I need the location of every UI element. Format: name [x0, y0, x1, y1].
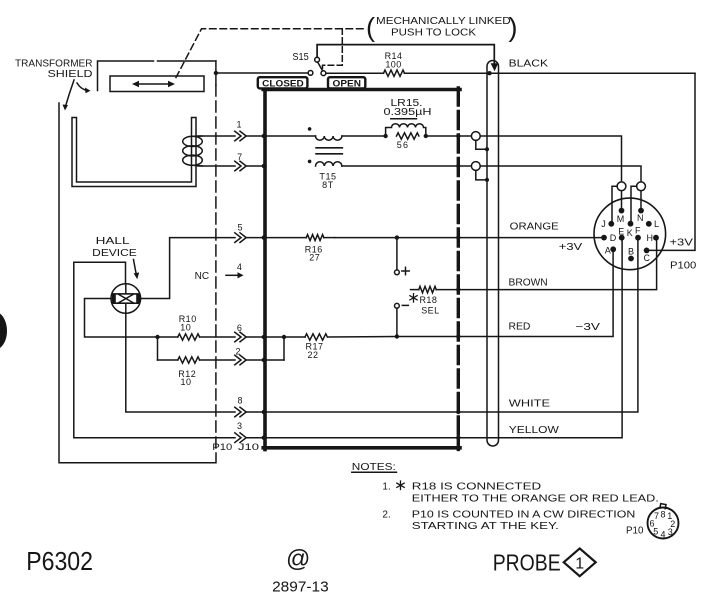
wire winding to LR15	[342, 135, 386, 137]
node yellow at dashed edge	[456, 436, 460, 440]
wire white to P100 pin F	[458, 240, 638, 412]
switch S15	[308, 57, 326, 75]
terminal -	[395, 303, 400, 308]
jack hook wire1 to cable shield	[476, 140, 487, 149]
svg-text:L: L	[654, 219, 659, 229]
svg-text:@: @	[286, 546, 310, 573]
node hook2 on cable shield	[485, 178, 489, 182]
hall device	[111, 284, 141, 314]
probe head shield box left edge	[263, 88, 267, 450]
movable core slider	[110, 76, 204, 92]
svg-text:WHITE: WHITE	[509, 399, 551, 410]
node brown at dashed edge	[456, 287, 460, 291]
svg-text:10: 10	[180, 322, 191, 332]
wire coil to pin 7 chevron	[198, 165, 235, 167]
jack circle on wire2	[471, 162, 480, 171]
T15 secondary winding top	[316, 136, 342, 140]
wire jack to pin M	[621, 191, 623, 208]
label -	[402, 304, 408, 306]
wire pin7 into box	[246, 165, 266, 167]
svg-text:+3V: +3V	[559, 242, 583, 253]
resistor R16	[266, 235, 335, 241]
svg-text:K: K	[627, 228, 633, 238]
wire branch to + terminal	[396, 238, 398, 270]
connector pin 2 chevron	[235, 355, 246, 365]
printing blob artifact on left edge	[0, 314, 7, 349]
P10 key diagram	[648, 504, 679, 540]
pin C	[644, 248, 650, 254]
svg-text:6: 6	[649, 518, 654, 528]
svg-text:−3V: −3V	[575, 322, 600, 333]
pin H	[653, 235, 659, 241]
terminal +	[395, 270, 400, 275]
resistor R14	[384, 70, 405, 76]
jack hook wire2 to cable shield	[476, 170, 487, 180]
wire orange inside box	[335, 237, 459, 239]
connector pin 5 chevron	[235, 233, 246, 243]
wire red to P100 pin A	[458, 252, 613, 337]
wire R14 to black lead	[405, 72, 696, 74]
label CLOSED	[258, 77, 308, 88]
svg-text:SEL: SEL	[421, 305, 439, 315]
jack hook to pin J	[612, 186, 617, 221]
node LR15 right	[424, 134, 428, 138]
wire junction down to pin2 line	[157, 337, 159, 360]
inductor LR15 parallel branch	[386, 124, 426, 136]
connector P100 body	[594, 198, 666, 270]
wire1 to P100 pin M with jack	[458, 136, 621, 182]
LR15 core line	[391, 118, 417, 120]
label OPEN	[328, 77, 365, 88]
node - on red wire	[395, 334, 399, 338]
jack circle on N wire	[637, 182, 646, 191]
node wire1 at dashed edge	[456, 134, 460, 138]
node R10 R12 junction	[155, 335, 159, 339]
node pin1 at box edge	[262, 134, 266, 138]
svg-text:BROWN: BROWN	[509, 278, 548, 289]
svg-text:PROBE: PROBE	[493, 550, 561, 576]
label +	[402, 267, 409, 274]
wire brown to P100 pin H	[458, 241, 656, 290]
pin B	[628, 256, 634, 262]
wire red inside box	[266, 337, 458, 361]
svg-text:NOTES:: NOTES:	[352, 462, 396, 473]
svg-text:1.: 1.	[382, 482, 390, 493]
svg-text:27: 27	[309, 252, 320, 262]
wire pin1 to T15 secondary winding	[266, 135, 316, 137]
svg-text:7: 7	[654, 511, 659, 521]
svg-text:HALL: HALL	[96, 236, 130, 247]
wire hall right lead to pin 5	[140, 238, 235, 299]
svg-text:2897-13: 2897-13	[272, 580, 329, 596]
wire S15 lower contact to R14	[326, 72, 384, 74]
node pin7 at box edge	[262, 164, 266, 168]
wire winding2 to box edge	[342, 165, 458, 167]
svg-text:YELLOW: YELLOW	[509, 425, 560, 436]
heading NOTES	[352, 462, 397, 473]
node red at dashed edge	[456, 334, 460, 338]
svg-text:5: 5	[237, 223, 242, 233]
svg-text:2.: 2.	[382, 509, 390, 520]
svg-text:1: 1	[236, 120, 241, 130]
wire orange to P100 pin D	[458, 237, 602, 239]
polarity dot winding top	[308, 127, 312, 131]
wire2 to P100 pin N with jack	[458, 166, 641, 182]
note 1 asterisk	[397, 481, 404, 490]
svg-text:4: 4	[660, 529, 665, 539]
shield U channel	[72, 118, 196, 187]
node pin8 at box edge	[262, 410, 266, 414]
svg-text:RED: RED	[509, 322, 531, 333]
resistor R12	[158, 357, 236, 363]
pin F	[635, 235, 641, 241]
resistor R10	[158, 334, 236, 340]
svg-text:56: 56	[397, 140, 409, 150]
note mechanically linked push to lock	[366, 12, 518, 42]
svg-text:H: H	[647, 233, 654, 243]
T15 core lines	[316, 148, 342, 154]
arrow from SHIELD label to shield top plate	[77, 83, 91, 93]
connector pin 1 chevron	[235, 131, 246, 141]
node LR15 left	[383, 134, 387, 138]
T15 secondary winding bottom	[316, 162, 342, 166]
pin N	[638, 208, 644, 214]
wire coil to pin 1 chevron	[198, 135, 235, 137]
wire LR15 to box edge	[426, 135, 459, 137]
arrow from SHIELD label to shield ground wire	[63, 80, 75, 111]
SECTION: top-left transformer shield	[0, 29, 367, 463]
node white at dashed edge	[456, 410, 460, 414]
resistor 56 of LR15	[397, 133, 419, 139]
svg-text:A: A	[605, 245, 611, 255]
svg-text:100: 100	[385, 60, 401, 70]
wire pin8 into box	[246, 411, 266, 413]
node pin3 at box edge	[262, 436, 266, 440]
probe diamond 1	[564, 548, 596, 576]
svg-text:C: C	[644, 253, 651, 263]
svg-text:EITHER TO THE ORANGE OR RED LE: EITHER TO THE ORANGE OR RED LEAD.	[412, 493, 659, 504]
wire - terminal to red wire	[396, 308, 398, 336]
SECTION: thick shielded box	[258, 77, 460, 449]
svg-text:4: 4	[237, 262, 242, 272]
solid top of enclosure line	[215, 61, 217, 85]
svg-text:PUSH TO LOCK: PUSH TO LOCK	[391, 28, 476, 39]
wire jack to pin N	[640, 191, 642, 208]
svg-text:R18 IS CONNECTED: R18 IS CONNECTED	[412, 482, 541, 493]
svg-text:D: D	[610, 233, 617, 243]
svg-text:7: 7	[237, 152, 242, 162]
svg-text:(: (	[366, 12, 375, 42]
node hook1 on cable shield	[485, 147, 489, 151]
wire pin3 into box	[246, 437, 266, 439]
svg-text:2: 2	[235, 347, 240, 357]
NC arrow pin 4	[226, 272, 244, 278]
wire pin1 into box	[246, 135, 266, 137]
svg-text:P10 IS COUNTED IN A CW DIRECTI: P10 IS COUNTED IN A CW DIRECTION	[412, 509, 636, 520]
svg-text:3: 3	[237, 421, 242, 431]
node S15 tap on enclosure line	[214, 71, 218, 75]
dashed link down to switch arm	[323, 29, 343, 70]
asterisk for R18 note	[410, 294, 417, 302]
dashed enclosure boundary line	[215, 85, 217, 453]
svg-text:BLACK: BLACK	[509, 58, 549, 69]
svg-text:22: 22	[307, 350, 318, 360]
svg-text:M: M	[617, 214, 625, 224]
resistor R17	[305, 334, 327, 340]
wire white inside box	[266, 411, 458, 413]
pin E	[619, 235, 625, 241]
svg-text:3: 3	[668, 527, 673, 537]
shield ground wire left vertical	[59, 103, 216, 463]
SECTION: S15 switch and R14	[214, 12, 695, 250]
svg-text:P100: P100	[670, 261, 697, 272]
svg-text:CLOSED: CLOSED	[262, 79, 304, 89]
probe head shield box right edge (dashed)	[457, 88, 460, 449]
svg-text:J10: J10	[238, 442, 259, 452]
connector pin 8 chevron	[235, 407, 246, 417]
connector pin 3 chevron	[235, 433, 246, 443]
svg-text:8: 8	[237, 395, 242, 405]
wire yellow to P100 pin E	[458, 240, 622, 438]
pin J	[608, 221, 614, 227]
svg-text:DEVICE: DEVICE	[92, 248, 137, 259]
transformer T15 primary coil on channel wall	[183, 136, 203, 166]
connector pin 6 chevron	[235, 332, 246, 342]
wire hall bottom lead to pin 8	[126, 313, 235, 412]
pin M	[619, 208, 625, 214]
SECTION: notes + bottom titles	[26, 462, 678, 596]
svg-text:8T: 8T	[322, 180, 334, 190]
pin L	[646, 221, 652, 227]
svg-text:B: B	[628, 247, 634, 257]
wire hall left lead to R10/R12 node	[85, 299, 158, 338]
wire pin6 into box	[246, 336, 266, 338]
SECTION: T15 and LR15	[235, 98, 461, 190]
dashed line mechanical link from slider	[176, 29, 367, 78]
resistor R18 (selected)	[411, 286, 459, 292]
polarity dot winding bottom	[308, 160, 312, 164]
shield top plate bracket	[98, 61, 216, 91]
SECTION: P100 connector	[559, 182, 697, 272]
svg-text:P10: P10	[212, 442, 232, 452]
wire S15 upper contact to cable top	[317, 45, 494, 63]
svg-text:0.395µH: 0.395µH	[384, 107, 432, 118]
svg-text:OPEN: OPEN	[333, 79, 362, 89]
svg-text:J: J	[601, 219, 606, 229]
cable entry grommet	[491, 63, 499, 71]
pin D	[601, 235, 607, 241]
svg-text:S15: S15	[292, 52, 309, 63]
node pin5 at box edge	[262, 235, 266, 239]
svg-text:P6302: P6302	[26, 546, 93, 576]
wire pin2 into box	[246, 359, 266, 361]
slider double arrow	[132, 81, 175, 87]
svg-text:8: 8	[660, 510, 665, 520]
svg-text:NC: NC	[195, 271, 210, 282]
connector pin 7 chevron	[235, 161, 246, 171]
wire black down right side to pin C	[649, 73, 695, 250]
svg-text:1: 1	[575, 555, 584, 572]
pin A	[610, 246, 616, 252]
pin K	[628, 221, 634, 227]
svg-text:MECHANICALLY LINKED: MECHANICALLY LINKED	[376, 16, 511, 27]
svg-text:R18: R18	[420, 295, 438, 305]
SECTION: hall device + left wiring	[74, 223, 266, 452]
label TRANSFORMER SHIELD	[15, 59, 93, 80]
svg-text:+3V: +3V	[670, 238, 694, 249]
SECTION: cable + color wires	[266, 61, 657, 447]
node pin6 at box edge	[262, 335, 266, 339]
probe head shield box bottom edge	[263, 446, 460, 450]
svg-text:STARTING AT THE KEY.: STARTING AT THE KEY.	[412, 521, 559, 532]
wire yellow inside box	[266, 437, 458, 439]
probe head shield box top edge	[263, 88, 460, 92]
wire enclosure line to S15 common	[216, 72, 308, 74]
svg-text:6: 6	[237, 323, 242, 333]
jack circle on M wire	[617, 182, 626, 191]
svg-text:N: N	[637, 213, 644, 223]
node black wire at cable shield	[487, 71, 491, 75]
cable sheath stadium	[487, 61, 499, 447]
svg-text:10: 10	[180, 377, 191, 387]
arrow label to hall device	[134, 260, 140, 280]
node orange at dashed edge	[456, 235, 460, 239]
svg-text:E: E	[618, 226, 624, 236]
node pin2 jog joins red	[282, 335, 286, 339]
node pin2 at box edge	[262, 358, 266, 362]
jack hook to pin K	[631, 186, 637, 221]
svg-text:F: F	[635, 225, 641, 235]
label HALL DEVICE	[92, 236, 137, 259]
svg-text:SHIELD: SHIELD	[48, 69, 93, 80]
svg-text:P10: P10	[626, 525, 644, 536]
node orange at + terminal branch	[395, 235, 399, 239]
wire pin5 into box	[246, 237, 266, 239]
wire hall top lead to pin 3	[74, 262, 235, 438]
svg-text:ORANGE: ORANGE	[510, 222, 559, 233]
jack circle on wire1	[471, 132, 480, 141]
node wire2 at dashed edge	[456, 164, 460, 168]
